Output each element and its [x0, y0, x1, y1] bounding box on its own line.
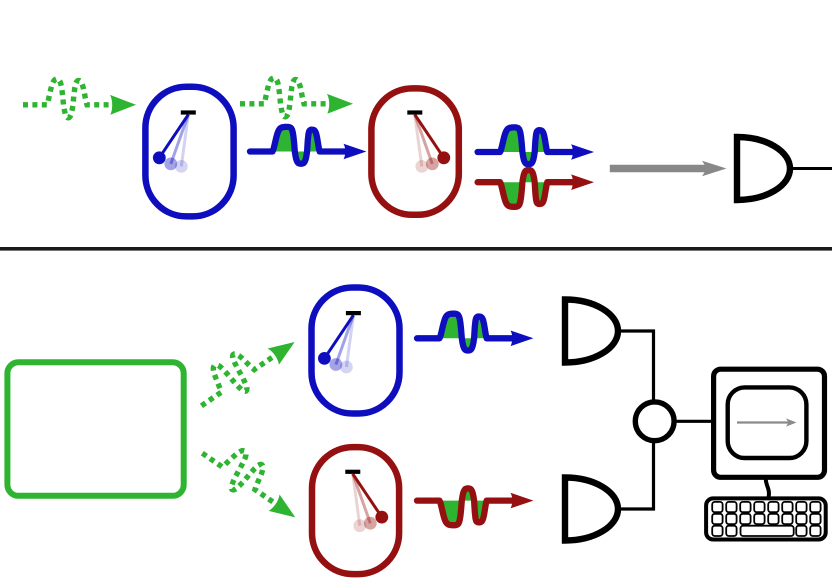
photon arrow 3 (diagonal up to blue cavity) [187, 321, 302, 417]
keyboard keys [712, 502, 820, 536]
photon arrow 4 (diagonal down to red cavity) [195, 432, 310, 528]
red pulse (bottom branch, inverted) [417, 488, 533, 525]
detector (top) [737, 137, 790, 200]
wire from circle to computer [674, 420, 714, 423]
detector (bottom upper) [565, 300, 618, 363]
cavity 3 (blue, bottom) [312, 288, 400, 414]
pendulum in red cavity (top) [407, 110, 450, 172]
detector (bottom lower) [565, 478, 618, 541]
keyboard body [706, 498, 826, 539]
cavity 1 (blue, top) [145, 87, 233, 217]
cavity 4 (dark red, bottom) [312, 447, 399, 574]
photon arrow 2 (green dotted, into red cavity) [240, 78, 353, 117]
wire from upper detector to junction [618, 331, 654, 403]
arrow on screen [737, 418, 797, 426]
cavity 2 (dark red, top) [371, 88, 458, 214]
pendulum in blue cavity (bottom) [318, 311, 361, 373]
monitor cable [766, 477, 769, 498]
pendulum in red cavity (bottom) [345, 470, 388, 532]
blue pulse (bottom branch) [417, 314, 533, 351]
blue pulse 1 (out of blue cavity) [250, 127, 366, 164]
photon arrow 1 (green dotted, into blue cavity) [23, 79, 136, 118]
pendulum in blue cavity (top) [153, 110, 196, 172]
correlator circle [635, 402, 674, 441]
computer monitor [714, 369, 825, 477]
red pulse (after red cavity, inverted) [478, 170, 594, 207]
monitor screen [728, 387, 807, 458]
gray arrow to detector [610, 161, 727, 176]
wire from lower detector to junction [618, 440, 654, 509]
source box (green) [7, 362, 183, 496]
divider line [0, 247, 832, 251]
detector output line (top) [790, 167, 832, 170]
blue pulse 2 (after red cavity) [478, 127, 594, 164]
